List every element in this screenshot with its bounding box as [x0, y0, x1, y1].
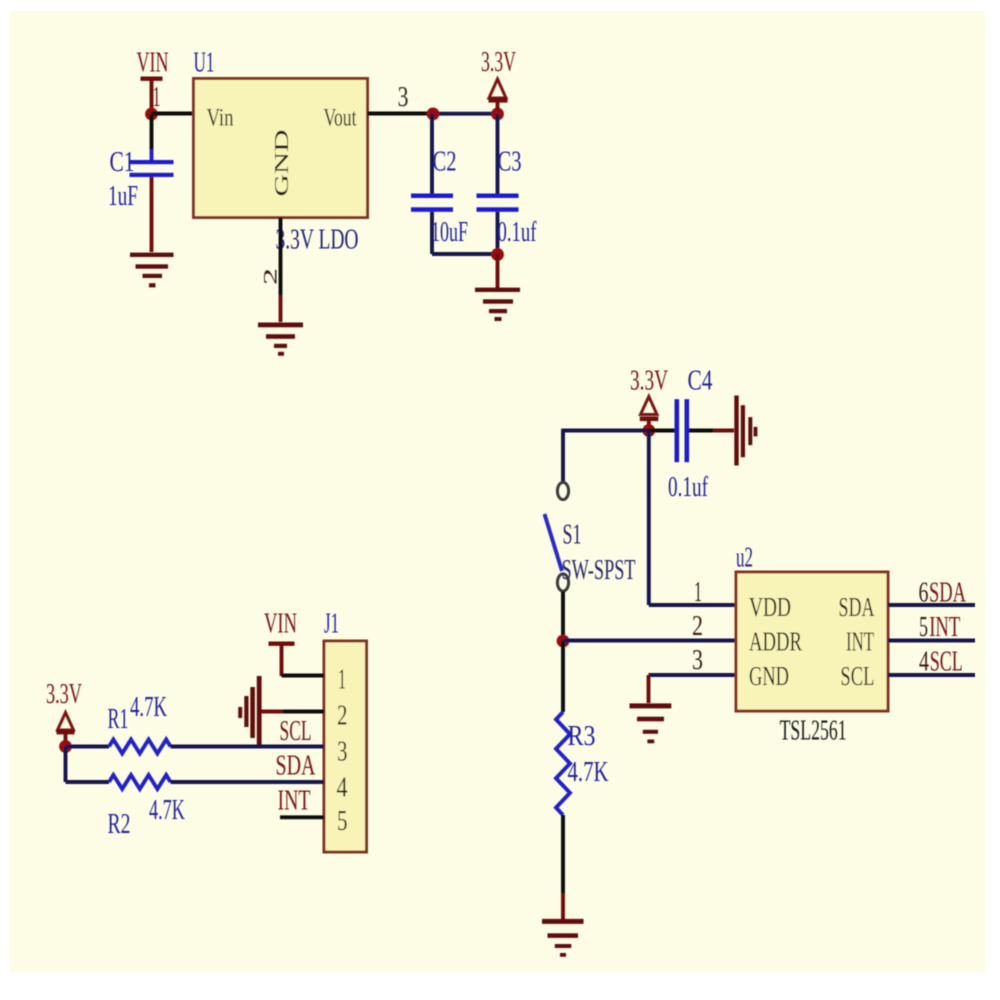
svg-text:C2: C2 [433, 147, 457, 178]
svg-text:C4: C4 [688, 366, 713, 397]
svg-text:TSL2561: TSL2561 [780, 715, 847, 747]
wire C2 bottom to C3 bottom [432, 252, 498, 256]
svg-text:3: 3 [398, 82, 409, 113]
node 3.3V / R1 / R2 [59, 740, 72, 753]
svg-text:SDA: SDA [929, 578, 967, 609]
resistor R2 [108, 775, 186, 840]
svg-text:6: 6 [919, 578, 929, 609]
svg-text:u2: u2 [736, 543, 753, 574]
svg-text:1uF: 1uF [108, 181, 138, 212]
wire Vout pin [368, 112, 434, 116]
svg-text:10uF: 10uF [431, 217, 468, 248]
wire R1 to J1 pin 3 / net SCL [171, 745, 325, 749]
power flag 3.3V at R1 [46, 679, 82, 742]
wire pin 6 SDA [888, 603, 975, 607]
svg-text:0.1uf: 0.1uf [668, 472, 708, 503]
node at C3 bottom [491, 248, 504, 261]
capacitor C4 [649, 399, 713, 503]
svg-text:ADDR: ADDR [749, 627, 802, 657]
node at 3.3V / C4 [642, 424, 655, 437]
wire ADDR node to pin 2 [563, 639, 736, 643]
svg-text:INT: INT [278, 786, 311, 817]
power flag 3.3V middle [630, 366, 668, 427]
svg-text:2: 2 [337, 701, 348, 732]
power flag 3.3V top [481, 47, 516, 110]
connector J1 body [324, 641, 367, 852]
svg-text:4: 4 [337, 773, 348, 804]
node at C3 [491, 108, 504, 121]
switch S1 [545, 482, 636, 591]
svg-text:INT: INT [846, 627, 874, 657]
capacitor C3 [477, 114, 537, 254]
svg-text:4: 4 [919, 647, 929, 678]
ground at J1 pin 2 [238, 676, 261, 745]
svg-text:INT: INT [929, 612, 960, 643]
node at C2 [427, 108, 440, 121]
wire node down to R2 [66, 747, 110, 783]
ground below C1 [130, 177, 174, 287]
wire J1 pin 1 [282, 674, 325, 678]
svg-text:R1: R1 [108, 704, 129, 735]
svg-text:2: 2 [692, 611, 703, 642]
svg-text:J1: J1 [324, 609, 339, 640]
resistor R3 [556, 712, 609, 815]
svg-text:SDA: SDA [276, 751, 317, 782]
svg-text:2: 2 [259, 268, 281, 285]
wire VIN node to U1 Vin pin [152, 112, 195, 116]
svg-text:4.7K: 4.7K [568, 757, 609, 788]
svg-text:U1: U1 [194, 48, 215, 79]
wire GND pin 3 [649, 673, 737, 677]
wire R2 to J1 pin 4 / net SDA [171, 780, 325, 784]
svg-text:R3: R3 [568, 721, 596, 752]
svg-text:1: 1 [694, 577, 702, 608]
wire pin 4 SCL [888, 673, 975, 677]
svg-text:3.3V: 3.3V [46, 679, 82, 710]
power flag VIN [137, 48, 169, 112]
wire node down to R3 [561, 641, 565, 712]
svg-text:Vout: Vout [324, 105, 357, 132]
wire J1 pin 5 / net INT [280, 815, 324, 819]
svg-text:3.3V LDO: 3.3V LDO [276, 225, 359, 256]
svg-text:VDD: VDD [749, 592, 791, 622]
wire Vout node to 3.3V node [428, 112, 498, 116]
svg-text:SDA: SDA [839, 592, 875, 622]
svg-text:0.1uf: 0.1uf [498, 217, 537, 248]
sensor u2 body [736, 572, 888, 711]
svg-text:Vin: Vin [207, 105, 234, 132]
svg-text:SCL: SCL [280, 716, 312, 747]
pin 2 of U1 [259, 218, 281, 296]
svg-text:R2: R2 [108, 809, 131, 840]
power flag VIN at J1 [264, 609, 297, 677]
svg-text:SW-SPST: SW-SPST [562, 555, 636, 586]
capacitor C2 [411, 114, 468, 255]
svg-text:3: 3 [337, 737, 348, 768]
svg-text:C1: C1 [110, 147, 135, 178]
wire 3.3V node down to VDD pin [649, 431, 736, 606]
wire switch to ADDR node [561, 592, 565, 642]
svg-text:3: 3 [692, 645, 703, 676]
wire node to R1 [66, 745, 110, 749]
wire 3.3V node to switch [563, 429, 649, 482]
svg-text:1: 1 [338, 665, 346, 696]
svg-text:5: 5 [337, 806, 348, 837]
svg-text:5: 5 [919, 612, 928, 643]
wire J1 pin 2 [259, 710, 324, 714]
ground below u2 pin3 [630, 675, 672, 743]
capacitor C1 [108, 114, 174, 212]
svg-text:GND: GND [271, 130, 293, 197]
svg-text:VIN: VIN [264, 609, 297, 640]
svg-text:SCL: SCL [930, 647, 963, 678]
ground below C3 [475, 254, 520, 321]
wire pin 5 INT [888, 639, 975, 643]
svg-text:VIN: VIN [137, 48, 169, 79]
node ADDR junction [557, 635, 570, 648]
svg-text:4.7K: 4.7K [130, 692, 167, 723]
svg-text:3.3V: 3.3V [481, 47, 516, 78]
regulator U1 body [194, 79, 368, 218]
svg-text:C3: C3 [498, 147, 522, 178]
svg-text:S1: S1 [563, 520, 582, 551]
svg-text:SCL: SCL [840, 661, 874, 691]
ground below R3 [542, 815, 584, 957]
svg-text:4.7K: 4.7K [149, 795, 185, 826]
svg-text:3.3V: 3.3V [630, 366, 668, 397]
node VIN junction [145, 108, 158, 121]
svg-text:GND: GND [749, 661, 789, 691]
ground right of C4 [713, 396, 757, 466]
ground below U1 pin2 [258, 295, 303, 356]
resistor R1 [108, 692, 171, 754]
